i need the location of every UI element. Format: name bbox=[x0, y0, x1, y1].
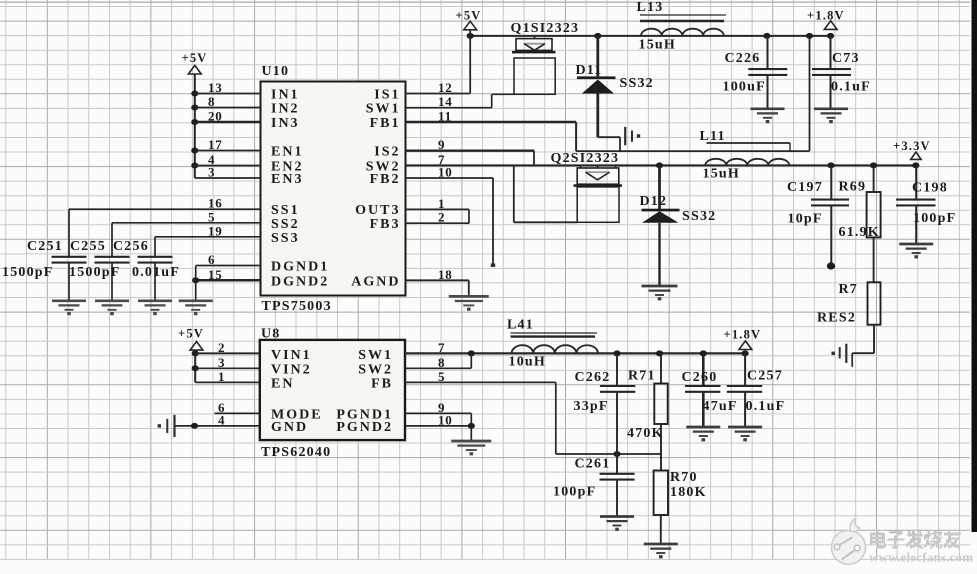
C257 label bbox=[747, 369, 783, 384]
capacitor C261 bbox=[600, 454, 635, 516]
ground under C251 bbox=[52, 301, 86, 315]
svg-text:100pF: 100pF bbox=[553, 485, 596, 500]
wire +5V vertical bus U8 bbox=[192, 350, 199, 382]
svg-text:FB: FB bbox=[371, 377, 393, 392]
C73 value 0.1uF bbox=[831, 80, 871, 95]
svg-text:10pF: 10pF bbox=[788, 212, 823, 227]
wire D11 anode down and right bbox=[598, 94, 620, 138]
svg-text:R69: R69 bbox=[839, 180, 867, 195]
svg-text:0.1uF: 0.1uF bbox=[831, 80, 871, 95]
C261 label bbox=[575, 456, 611, 471]
svg-text:+1.8V: +1.8V bbox=[724, 327, 762, 341]
svg-text:C198: C198 bbox=[912, 180, 948, 195]
inductor L41 10uH bbox=[511, 333, 599, 353]
svg-text:FB2: FB2 bbox=[370, 172, 401, 187]
ground (sideways) at R7 bbox=[832, 344, 847, 363]
wire pin8 IN2 bbox=[195, 107, 261, 109]
wire pin1 OUT3 bbox=[406, 208, 470, 210]
svg-text:DGND1: DGND1 bbox=[271, 260, 329, 275]
svg-text:EN3: EN3 bbox=[271, 172, 303, 187]
wire OUT3-FB3 tie bbox=[468, 209, 470, 223]
wire Q2 drain return to SW2 rail bbox=[514, 165, 577, 222]
svg-text:Q2SI2323: Q2SI2323 bbox=[551, 151, 620, 166]
svg-text:47uF: 47uF bbox=[703, 399, 738, 414]
U10 reference designator label bbox=[262, 64, 290, 79]
power flag +1.8V (bottom) bbox=[724, 327, 762, 349]
capacitor C257 bbox=[727, 353, 762, 426]
svg-text:AGND: AGND bbox=[351, 274, 400, 289]
svg-text:C197: C197 bbox=[787, 180, 823, 195]
ground under C255 bbox=[95, 301, 129, 315]
wire U8 pin6 MODE stub bbox=[215, 412, 260, 414]
C262 label bbox=[575, 370, 611, 385]
C251 label bbox=[27, 239, 63, 254]
svg-text:U8: U8 bbox=[261, 326, 281, 341]
power flag +5V (U8) bbox=[178, 327, 204, 351]
C73 label bbox=[832, 51, 860, 66]
resistor R70 180K bbox=[654, 471, 668, 544]
svg-text:www.elecfans.com: www.elecfans.com bbox=[869, 550, 973, 565]
wire FB1 riser bbox=[809, 36, 811, 151]
svg-text:100uF: 100uF bbox=[723, 80, 766, 95]
C198 label bbox=[912, 180, 948, 195]
U8 reference designator label bbox=[261, 326, 281, 341]
capacitor C226 bbox=[748, 36, 787, 109]
wire pin14 SW1 bbox=[406, 107, 492, 109]
resistor R71 470K bbox=[654, 353, 667, 470]
D11 label bbox=[576, 63, 603, 78]
capacitor C262 bbox=[600, 353, 635, 454]
ground (sideways) at D11 anode bbox=[625, 127, 640, 145]
svg-text:C262: C262 bbox=[575, 370, 611, 385]
wire IS2 drop to SW2 rail bbox=[533, 151, 535, 166]
power flag +3.3V bbox=[893, 139, 931, 159]
svg-text:C256: C256 bbox=[113, 239, 149, 254]
svg-text:16: 16 bbox=[208, 196, 223, 211]
svg-text:IS2: IS2 bbox=[374, 145, 400, 160]
wire pin4 EN2 bbox=[195, 165, 261, 167]
C197 value 10pF bbox=[788, 212, 823, 227]
C226 label bbox=[725, 51, 761, 66]
U8 right pin numbers bbox=[438, 340, 453, 428]
C251 value 1500pF bbox=[2, 265, 54, 280]
svg-text:Q1SI2323: Q1SI2323 bbox=[511, 21, 580, 36]
svg-text:10uH: 10uH bbox=[509, 355, 546, 370]
diode D12 bbox=[642, 209, 680, 223]
R7 label bbox=[839, 282, 859, 297]
svg-text:15uH: 15uH bbox=[703, 167, 740, 182]
U10 left pin names bbox=[271, 88, 329, 290]
svg-text:C257: C257 bbox=[747, 369, 783, 384]
svg-text:61.9K: 61.9K bbox=[839, 225, 880, 240]
svg-text:C260: C260 bbox=[682, 370, 718, 385]
U10 left pin numbers bbox=[208, 80, 223, 282]
U10 right pin names bbox=[351, 88, 400, 290]
svg-text:FB3: FB3 bbox=[370, 217, 401, 232]
op-amp U10 TPS75003 body bbox=[261, 82, 406, 296]
svg-text:D12: D12 bbox=[640, 194, 668, 209]
C260 value 47uF bbox=[703, 399, 738, 414]
svg-text:SS1: SS1 bbox=[271, 203, 300, 218]
svg-text:1500pF: 1500pF bbox=[2, 265, 54, 280]
ground under C256 bbox=[138, 301, 172, 315]
svg-text:C73: C73 bbox=[832, 51, 860, 66]
C260 label bbox=[682, 370, 718, 385]
svg-text:SW2: SW2 bbox=[358, 363, 393, 378]
watermark text elecfans (vectorized CJK) bbox=[870, 530, 961, 549]
resistor R7 RES2 bbox=[852, 282, 880, 367]
svg-text:C255: C255 bbox=[70, 239, 106, 254]
svg-text:L13: L13 bbox=[637, 0, 664, 15]
watermark url text bbox=[869, 550, 973, 565]
ground under R70 bbox=[644, 544, 678, 558]
svg-text:DGND2: DGND2 bbox=[271, 274, 329, 289]
svg-text:EN: EN bbox=[271, 377, 294, 392]
wire U8 pin5 FB bbox=[405, 381, 556, 383]
D11 value SS32 bbox=[620, 76, 654, 91]
C262 value 33pF bbox=[574, 399, 609, 414]
wire U8 pin1 EN bbox=[195, 381, 260, 383]
svg-text:470K: 470K bbox=[627, 426, 664, 441]
wire +5V top rail bbox=[467, 33, 835, 39]
svg-text:TPS62040: TPS62040 bbox=[261, 445, 331, 460]
svg-text:IN2: IN2 bbox=[271, 102, 300, 117]
wire pin15 DGND2 bbox=[192, 277, 260, 283]
capacitor C260 bbox=[685, 353, 720, 426]
wire pin17 EN1 bbox=[195, 150, 261, 152]
R71 value 470K bbox=[627, 426, 664, 441]
wire FB2 stub down bbox=[491, 178, 495, 267]
wire pin11 FB1 bbox=[406, 121, 577, 124]
capacitor C198 bbox=[896, 165, 935, 243]
Q1 label Q1SI2323 bbox=[511, 21, 580, 36]
svg-text:R7: R7 bbox=[839, 282, 859, 297]
svg-text:U10: U10 bbox=[262, 64, 290, 79]
wire pin5 SS2 to C255 bbox=[112, 223, 261, 257]
U8 left pin names bbox=[271, 348, 323, 435]
wire FB1 run to +1.8V rail bbox=[576, 150, 809, 152]
svg-text:EN1: EN1 bbox=[271, 145, 303, 160]
svg-text:100pF: 100pF bbox=[913, 211, 956, 226]
wire FB node run bbox=[556, 451, 661, 457]
U8 right pin names bbox=[336, 348, 393, 435]
wire FB drop bbox=[555, 382, 557, 454]
ground under AGND pin18 bbox=[449, 296, 489, 310]
svg-text:+5V: +5V bbox=[182, 51, 208, 65]
power flag +5V (U10 input side) bbox=[182, 51, 208, 74]
L41 label bbox=[507, 318, 534, 333]
svg-text:0.1uF: 0.1uF bbox=[746, 399, 786, 414]
svg-text:IN1: IN1 bbox=[271, 88, 300, 103]
ground under C257 bbox=[728, 427, 762, 441]
C255 label bbox=[70, 239, 106, 254]
svg-text:+3.3V: +3.3V bbox=[893, 139, 931, 153]
U8 left pin numbers bbox=[218, 340, 225, 428]
svg-text:C251: C251 bbox=[27, 239, 63, 254]
wire U8 pin9 PGND1 bbox=[405, 412, 471, 414]
U8 part number TPS62040 bbox=[261, 445, 331, 460]
svg-text:1500pF: 1500pF bbox=[69, 265, 121, 280]
ground under C226 bbox=[751, 109, 785, 123]
svg-text:SS32: SS32 bbox=[682, 209, 716, 224]
ground under C198 bbox=[899, 244, 933, 258]
power flag +5V (top rail) bbox=[456, 9, 482, 30]
svg-text:VIN1: VIN1 bbox=[271, 348, 312, 363]
svg-text:SS3: SS3 bbox=[271, 231, 300, 246]
svg-text:PGND2: PGND2 bbox=[336, 420, 393, 435]
wire DGND down to ground bbox=[195, 266, 197, 301]
R69 label bbox=[839, 180, 867, 195]
svg-text:+5V: +5V bbox=[456, 9, 482, 23]
capacitor C255 bbox=[95, 257, 130, 301]
svg-text:SS32: SS32 bbox=[620, 76, 654, 91]
C257 value 0.1uF bbox=[746, 399, 786, 414]
R71 label bbox=[628, 369, 656, 384]
capacitor C251 bbox=[52, 257, 87, 301]
C226 value 100uF bbox=[723, 80, 766, 95]
L41 value 10uH bbox=[509, 355, 546, 370]
svg-text:0.01uF: 0.01uF bbox=[132, 265, 180, 280]
wire SW1 riser to Q1 drain bbox=[492, 94, 514, 107]
D12 value SS32 bbox=[682, 209, 716, 224]
C197 label bbox=[787, 180, 823, 195]
wire D12 anode to ground bbox=[658, 223, 660, 285]
R70 value 180K bbox=[670, 485, 707, 500]
op-amp U8 TPS62040 body bbox=[260, 340, 405, 440]
wire U8 pin10 PGND2 bbox=[405, 413, 475, 440]
svg-text:+5V: +5V bbox=[178, 327, 204, 341]
capacitor C197 bbox=[811, 165, 849, 269]
wire pin16 SS1 to C251 bbox=[69, 209, 261, 257]
svg-text:SW1: SW1 bbox=[366, 102, 401, 117]
wire pin19 SS3 to C256 bbox=[155, 237, 261, 257]
C256 value 0.01uF bbox=[132, 265, 180, 280]
svg-text:C261: C261 bbox=[575, 456, 611, 471]
U10 right pin numbers bbox=[438, 80, 453, 282]
Q2 label Q2SI2323 bbox=[551, 151, 620, 166]
svg-text:180K: 180K bbox=[670, 485, 707, 500]
ground under D12 bbox=[642, 286, 678, 300]
inductor L11 15uH bbox=[705, 143, 790, 165]
capacitor C256 bbox=[138, 257, 173, 301]
wire pin6 DGND1 bbox=[196, 265, 261, 267]
svg-text:IS1: IS1 bbox=[374, 88, 400, 103]
L11 value 15uH bbox=[703, 167, 740, 182]
D12 label bbox=[640, 194, 668, 209]
svg-text:+1.8V: +1.8V bbox=[807, 9, 845, 23]
inductor L13 15uH bbox=[640, 15, 726, 36]
svg-text:IN3: IN3 bbox=[271, 116, 300, 131]
L13 label bbox=[637, 0, 664, 15]
ground under C261 bbox=[600, 517, 634, 531]
power flag +1.8V (top) bbox=[807, 9, 845, 30]
ground (sideways) at U8 GND bbox=[158, 415, 175, 437]
wire pin13 IN1 bbox=[195, 93, 261, 95]
wire U8 pin8 SW2 bbox=[405, 353, 471, 368]
resistor R69 61.9K bbox=[867, 165, 881, 282]
transistor Q1 SI2323 bbox=[512, 36, 556, 94]
wire pin9 IS2 bbox=[406, 149, 535, 151]
svg-text:TPS75003: TPS75003 bbox=[262, 299, 332, 314]
wire pin2 FB3 bbox=[406, 222, 470, 224]
wire SW2 rail to L11 and +3.3V bbox=[406, 162, 920, 168]
wire U8 SW rail to +1.8V bbox=[405, 350, 749, 356]
ground under C73 bbox=[814, 109, 848, 123]
wire U8 pin2 VIN1 bbox=[195, 352, 260, 354]
svg-text:SS2: SS2 bbox=[271, 217, 300, 232]
C261 value 100pF bbox=[553, 485, 596, 500]
svg-text:L41: L41 bbox=[507, 318, 534, 333]
svg-text:GND: GND bbox=[271, 420, 308, 435]
C255 value 1500pF bbox=[69, 265, 121, 280]
svg-text:R71: R71 bbox=[628, 369, 656, 384]
R70 label bbox=[670, 470, 698, 485]
wire pin12 IS1 bbox=[406, 93, 471, 95]
svg-text:FB1: FB1 bbox=[370, 116, 401, 131]
wire +5V vertical bus to U10 input pins bbox=[191, 74, 198, 178]
svg-text:OUT3: OUT3 bbox=[355, 203, 400, 218]
ground under PGND bbox=[451, 441, 491, 455]
ground under DGND bbox=[179, 301, 213, 315]
wire pin20 IN3 bbox=[195, 121, 261, 124]
C198 value 100pF bbox=[913, 211, 956, 226]
wire FB1 drop bbox=[575, 122, 577, 151]
diode D11 SS32 cathode wire bbox=[596, 36, 599, 77]
diode D12 SS32 cathode wire bbox=[658, 165, 661, 209]
svg-text:R70: R70 bbox=[670, 470, 698, 485]
svg-text:RES2: RES2 bbox=[817, 310, 856, 325]
transistor Q2 SI2323 bbox=[574, 165, 623, 222]
watermark logo elecfans bbox=[832, 519, 866, 565]
svg-text:14: 14 bbox=[438, 94, 453, 109]
R69 value 61.9K bbox=[839, 225, 880, 240]
svg-text:VIN2: VIN2 bbox=[271, 363, 312, 378]
scan border bar (right edge) bbox=[972, 0, 977, 532]
wire pin18 AGND bbox=[406, 280, 469, 296]
C256 label bbox=[113, 239, 149, 254]
ground under C260 bbox=[686, 427, 720, 441]
capacitor C73 bbox=[812, 36, 851, 109]
wire U8 pin3 VIN2 bbox=[195, 367, 260, 369]
svg-text:SW1: SW1 bbox=[358, 348, 393, 363]
wire IS1 riser to +5V rail bbox=[469, 30, 471, 94]
svg-text:L11: L11 bbox=[700, 129, 726, 144]
wire D11 net drop to FB1 run bbox=[619, 137, 621, 151]
svg-text:C226: C226 bbox=[725, 51, 761, 66]
wire pin3 EN3 bbox=[195, 177, 261, 179]
wire pin10 FB2 bbox=[406, 177, 494, 179]
L11 label bbox=[700, 129, 726, 144]
L13 value 15uH bbox=[639, 38, 676, 53]
svg-text:D11: D11 bbox=[576, 63, 603, 78]
R7 value RES2 bbox=[817, 310, 856, 325]
U10 part number TPS75003 bbox=[262, 299, 332, 314]
svg-text:33pF: 33pF bbox=[574, 399, 609, 414]
wire U8 pin4 GND bbox=[175, 423, 260, 429]
svg-text:15uH: 15uH bbox=[639, 38, 676, 53]
diode D11 bbox=[577, 76, 616, 93]
